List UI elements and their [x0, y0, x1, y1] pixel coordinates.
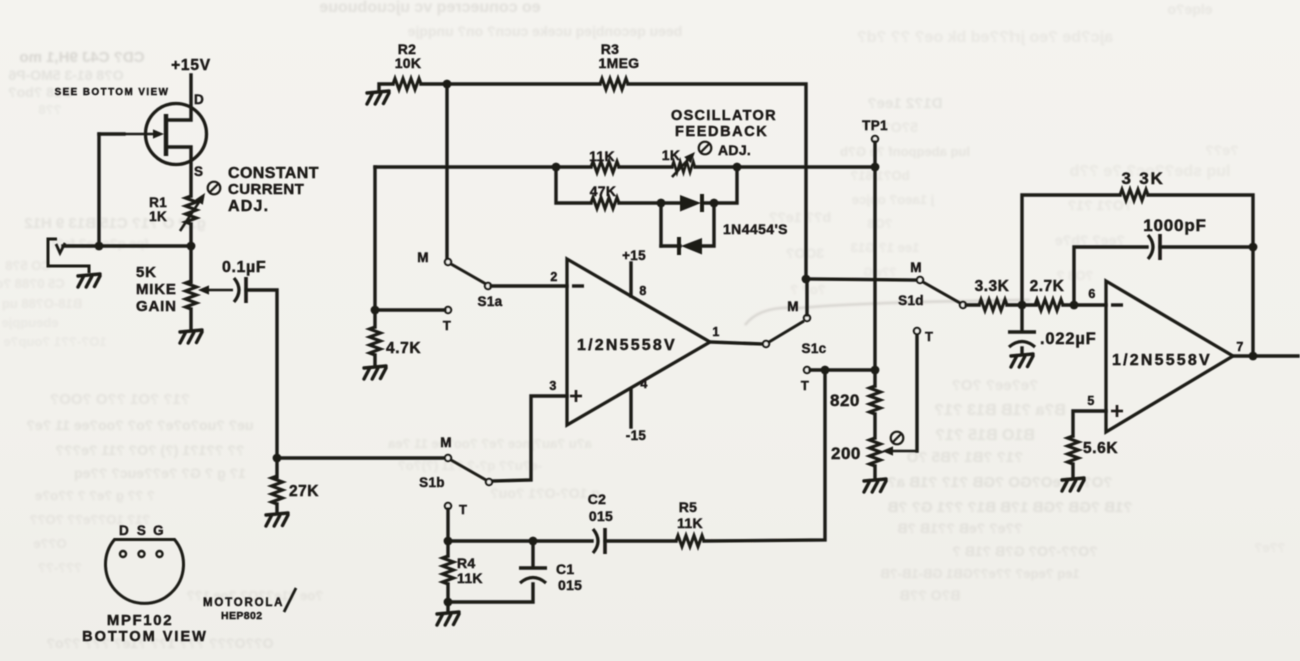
wire to D1 [661, 201, 680, 204]
wire pin 8 +15 [629, 263, 632, 296]
junction output node [802, 275, 811, 284]
resistor 2.7K [1035, 300, 1063, 311]
minus input mark U1b [1111, 303, 1123, 306]
wire to R4 [446, 541, 449, 556]
ground R2 [367, 91, 389, 104]
svg-text:S1c: S1c [802, 341, 827, 356]
svg-text:S: S [194, 164, 203, 179]
wire 1000pF left [1074, 247, 1147, 305]
svg-text:O??e: O??e [33, 536, 66, 551]
wire 5.6K to ground [1071, 464, 1074, 478]
wire node to S1a M [445, 84, 448, 259]
svg-text:?O?1 ?1?: ?O?1 ?1? [1068, 197, 1133, 213]
svg-text:?e??: ?e?? [1205, 142, 1238, 158]
resistor 5K MIKE GAIN potentiometer [186, 281, 197, 309]
wire output pin 1 [710, 342, 763, 344]
svg-text:?1? 1O??e?? ?O??: ?1? 1O??e?? ?O?? [30, 512, 151, 527]
ground R4 [437, 612, 459, 625]
wire R1 to node [189, 224, 192, 246]
svg-text:10K: 10K [395, 55, 422, 71]
wire 3.3K to 2.7K [1007, 303, 1036, 306]
phase symbol R1 [208, 182, 221, 195]
wire S1b T down [446, 509, 449, 541]
svg-text:MIKE: MIKE [136, 281, 177, 298]
switch S1a blade [451, 264, 486, 284]
svg-text:MPF102: MPF102 [107, 612, 173, 629]
wire +15V to Q1 drain [166, 75, 191, 120]
wire 11K to 1K pot [619, 165, 672, 168]
svg-text:+15: +15 [622, 248, 646, 263]
diode D2 1N4454 [679, 237, 702, 255]
svg-text:1eq ?eqe? ??e??GB1 GB-1B-?B: 1eq ?eqe? ??e??GB1 GB-1B-?B [880, 566, 1079, 581]
svg-text:1ee 1? G13: 1ee 1? G13 [851, 240, 920, 255]
wire 27K to ground [275, 504, 278, 513]
wire 0.1uF to S1b feed [246, 290, 277, 458]
svg-text:0.1µF: 0.1µF [222, 259, 266, 276]
wire feedback line left [375, 165, 591, 168]
svg-text:?O??-?O? G?B ?1B ?: ?O??-?O? G?B ?1B ? [952, 543, 1097, 559]
svg-text:C5 0?88 ?o: C5 0?88 ?o [0, 276, 65, 291]
wire to 47K [556, 167, 591, 203]
phase symbol 1K [699, 142, 712, 155]
wire output node to S1d M [806, 279, 916, 280]
resistor 27K [272, 476, 283, 504]
wire C1 to ground rail [448, 584, 533, 602]
wire 200 to ground [873, 466, 876, 479]
wire wiper to S1d T [915, 334, 918, 451]
svg-text:S1d: S1d [898, 293, 924, 308]
svg-text:R4: R4 [457, 555, 476, 571]
svg-text:1: 1 [712, 325, 719, 339]
wire diode loop left [659, 203, 662, 246]
svg-text:820: 820 [830, 391, 860, 410]
wire node to S1b M [277, 456, 444, 459]
svg-text:-15: -15 [626, 428, 647, 443]
switch S1c blade [769, 321, 804, 342]
svg-text:?e?ee? ?O?: ?e?ee? ?O? [952, 377, 1039, 394]
potentiometer 200 [870, 438, 881, 466]
svg-text:1O?-??1 ?oup?e: 1O?-??1 ?oup?e [3, 334, 106, 349]
wire input node [63, 244, 191, 247]
wire pin 3 to S1b pole [492, 396, 567, 481]
svg-text:CO 5?8: CO 5?8 [5, 258, 51, 273]
svg-text:S1a: S1a [478, 294, 503, 309]
svg-text:B18-O?88 uq: B18-O?88 uq [2, 296, 82, 311]
wire output pin 7 [1233, 354, 1298, 357]
1K pot wiper arrow [672, 152, 695, 177]
ground 27K [266, 513, 288, 526]
wire to C1 [531, 541, 534, 567]
svg-text:1N4454'S: 1N4454'S [723, 221, 788, 237]
contact S1c pole [763, 341, 769, 347]
resistor 4.7K [370, 327, 381, 355]
wire to 820 [873, 370, 876, 386]
svg-text:3: 3 [549, 379, 556, 393]
svg-text:200: 200 [831, 444, 861, 463]
svg-text:1000pF: 1000pF [1143, 216, 1206, 235]
svg-text:B?a ?1B B13 ?1?: B?a ?1B B13 ?1? [934, 402, 1066, 419]
contact S1b M [445, 455, 451, 461]
wire S1d pole to 3.3K [966, 303, 979, 306]
junction diode left [657, 199, 666, 208]
svg-text:1? g ? G? ?e??euc? ??eq: 1? g ? G? ?e??euc? ??eq [74, 465, 246, 481]
capacitor 1000pF [1148, 234, 1160, 260]
capacitor C2 .015 [593, 528, 605, 554]
wire pin 5 [1073, 411, 1106, 436]
svg-text:27K: 27K [289, 483, 319, 500]
svg-text:bO?1 61?: bO?1 61? [850, 168, 909, 183]
Q1 gate arrow [121, 129, 164, 138]
wire TP1 line down [873, 167, 876, 370]
op-amp U1a 1/2N5558V [567, 259, 710, 425]
wire 1K to TP1 node [695, 165, 875, 168]
svg-text:T: T [925, 329, 933, 344]
ground 5K pot [180, 330, 202, 343]
svg-text:015: 015 [558, 577, 582, 593]
svg-text:g 1O?-O?1 ?ou?: g 1O?-O?1 ?ou? [490, 485, 600, 501]
capacitor C1 .015 [519, 568, 547, 583]
capacitor .022uF [1008, 332, 1036, 347]
junction diode right [710, 199, 719, 208]
wire 33K left [1022, 195, 1120, 305]
svg-text:j 1aeo? opjce: j 1aeo? opjce [852, 192, 935, 207]
wire to .022uF [1020, 305, 1023, 331]
svg-text:.022µF: .022µF [1040, 330, 1097, 348]
resistor R2 10K [393, 79, 421, 90]
svg-text:5.6K: 5.6K [1083, 440, 1118, 457]
resistor 5.6K [1068, 436, 1079, 464]
wire S1c M up [805, 279, 808, 315]
wire .022uF to ground [1020, 348, 1023, 354]
svg-text:T: T [459, 502, 467, 517]
transistor Q1 MPF102 body [146, 104, 207, 165]
svg-text:elqe?o: elqe?o [1167, 1, 1212, 17]
junction 4.7K [371, 306, 380, 315]
pin dot S [139, 551, 145, 557]
ground jack sleeve [78, 274, 100, 287]
svg-text:?1B ?GB ?GB 1?B B1? ??1 G? ?B: ?1B ?GB ?GB 1?B B1? ??1 G? ?B [887, 499, 1132, 516]
wire 4.7K node to S1a T [375, 308, 445, 311]
svg-text:HEP802: HEP802 [221, 610, 263, 622]
svg-text:T: T [443, 318, 451, 333]
svg-text:R5: R5 [679, 499, 698, 515]
resistor 47K [591, 198, 619, 209]
wire TP1 stub [873, 142, 876, 167]
contact S1b pole [486, 479, 492, 485]
pencil smudge [745, 300, 1030, 325]
wire to C2 [448, 539, 592, 542]
contact S1b T [445, 503, 451, 509]
wire 47K to diodes [619, 201, 661, 204]
pin dot D [120, 551, 126, 557]
ground 200 pot [864, 479, 886, 492]
junction pin6 node [1070, 301, 1079, 310]
junction T drop [821, 366, 830, 375]
svg-text:??e?: ??e? [1254, 540, 1285, 555]
capacitor 0.1uF [234, 277, 246, 303]
wire to D2 [661, 244, 680, 247]
svg-text:ADJ.: ADJ. [718, 142, 751, 158]
diode D1 1N4454 [680, 194, 702, 212]
svg-text:g1P O ?1? C15 B13 9 H12: g1P O ?1? C15 B13 9 H12 [24, 215, 205, 232]
svg-text:1K: 1K [662, 147, 681, 163]
svg-text:3 3K: 3 3K [1121, 169, 1164, 188]
wire diode loop right [702, 203, 714, 246]
potentiometer 1K oscillator feedback [672, 162, 695, 173]
svg-text:7: 7 [1236, 340, 1243, 354]
svg-text:2.7K: 2.7K [1030, 278, 1065, 295]
junction gate-input node [95, 242, 104, 251]
wire S1c T to 820 [810, 368, 875, 371]
svg-text:11K: 11K [589, 148, 615, 164]
wire D1 to 1K node [702, 167, 737, 203]
wire R3 to output switch node [628, 84, 806, 279]
switch S1d blade [923, 282, 960, 303]
svg-text:CONSTANT: CONSTANT [228, 165, 319, 182]
wire to 4.7K node [373, 167, 376, 310]
junction 3.3K-2.7K [1018, 301, 1027, 310]
ground .022uF [1011, 354, 1033, 367]
ground 4.7K [364, 366, 386, 379]
wire 33K right to output [1148, 195, 1253, 356]
svg-text:1/2N5558V: 1/2N5558V [577, 337, 677, 354]
contact S1d M [917, 277, 923, 283]
resistor R3 1MEG [600, 79, 628, 90]
wire 2.7K to pin 6 [1063, 303, 1106, 306]
svg-text:2: 2 [550, 270, 557, 284]
contact S1c M [804, 315, 810, 321]
svg-text:luq abeqponf ?e G?b: luq abeqponf ?e G?b [840, 144, 970, 159]
svg-text:OSCILLATOR: OSCILLATOR [671, 108, 777, 124]
junction output pin 7 [1249, 352, 1258, 361]
resistor R4 11K [443, 556, 454, 584]
plus input mark [570, 390, 582, 402]
svg-text:ajc?be ?eo jrf??ed bk oe? ?? ?: ajc?be ?eo jrf??ed bk oe? ?? ?d? [857, 29, 1113, 46]
svg-text:4: 4 [640, 377, 647, 391]
contact S1c T [804, 367, 810, 373]
svg-text:ADJ.: ADJ. [228, 198, 269, 215]
wire 1000pF right [1160, 245, 1253, 248]
wire gate to input node [97, 134, 100, 246]
junction R4 bottom [444, 598, 453, 607]
resistor R5 11K [676, 536, 704, 547]
wire 820 to 200 pot [873, 414, 876, 438]
op-amp U1b 1/2N5558V [1106, 281, 1233, 432]
svg-text:D1?2 1ee?: D1?2 1ee? [867, 95, 942, 112]
junction TP1 [871, 163, 880, 172]
svg-text:beeu qeconbjeq uceke cucn? on?: beeu qeconbjeq uceke cucn? on? unqqje [407, 23, 682, 39]
svg-text:3.3K: 3.3K [975, 278, 1010, 295]
Q1 channel bar [164, 114, 168, 156]
svg-text:CURRENT: CURRENT [228, 181, 304, 198]
wire R2 to R3 [421, 82, 600, 85]
svg-text:M: M [440, 435, 452, 450]
wire pin 4 -15 [629, 390, 632, 427]
svg-text:B1O B15 ?1?: B1O B15 ?1? [935, 427, 1035, 444]
svg-text:8: 8 [639, 284, 646, 298]
wire gate stub [99, 132, 124, 135]
svg-text:MOTOROLA: MOTOROLA [203, 597, 284, 609]
svg-text:M: M [910, 260, 922, 275]
svg-text:1MEG: 1MEG [599, 55, 640, 71]
svg-text:D: D [119, 523, 129, 538]
junction 820 top [871, 366, 880, 375]
svg-text:R1: R1 [149, 195, 167, 210]
svg-text:6: 6 [1088, 287, 1095, 301]
resistor R1 1K potentiometer [186, 196, 197, 224]
wire to 4.7K [373, 310, 376, 327]
junction C1 top [529, 537, 538, 546]
svg-text:1/2N5558V: 1/2N5558V [1112, 352, 1212, 369]
svg-text:+15V: +15V [171, 57, 211, 74]
junction R4 top [444, 537, 453, 546]
svg-text:SEE BOTTOM VIEW: SEE BOTTOM VIEW [55, 87, 170, 98]
resistor 3.3K [979, 300, 1007, 311]
wire C2 to R5 [605, 539, 676, 542]
svg-text:GAIN: GAIN [136, 298, 177, 315]
junction R2-R3 node [443, 80, 452, 89]
svg-text:C2: C2 [588, 491, 607, 507]
phase symbol 200 [891, 432, 904, 445]
resistor 11K [591, 162, 619, 173]
junction 1000pF output [1249, 243, 1258, 252]
svg-text:??e? ?eB ??1B ?B: ??e? ?eB ??1B ?B [897, 520, 1022, 536]
svg-text:M: M [787, 299, 799, 314]
svg-text:5K: 5K [136, 264, 157, 281]
svg-text:47K: 47K [590, 183, 617, 199]
R1 wiper arrow [180, 193, 205, 231]
MPF102 package bottom view [105, 540, 183, 604]
svg-text:CD? C4J 9H,1 mo: CD? C4J 9H,1 mo [19, 49, 144, 66]
svg-text:???-??: ???-?? [38, 560, 82, 575]
svg-text:??wG: ??wG [863, 265, 896, 279]
svg-text:S: S [137, 523, 146, 538]
svg-text:T: T [801, 378, 809, 393]
svg-text:G: G [153, 523, 164, 538]
switch S1b blade [451, 460, 486, 480]
plus input mark U1b [1111, 405, 1123, 417]
svg-text:??8: ??8 [38, 102, 61, 117]
ground 5.6K [1062, 478, 1084, 491]
test point TP1 terminal [872, 136, 878, 142]
contact S1a T [445, 307, 451, 313]
junction 11K-47K [552, 163, 561, 172]
resistor 820 [870, 386, 881, 414]
svg-text:1K: 1K [149, 209, 167, 224]
wire Q1 source lead [166, 147, 191, 196]
wire S1a pole to pin 2 [491, 284, 567, 287]
svg-text:?1? ?O1 ??O ?OO?: ?1? ?O1 ??O ?OO? [50, 391, 190, 408]
svg-text:TP1: TP1 [862, 118, 888, 133]
pin dot G [157, 551, 163, 557]
svg-text:B?O ??B: B?O ??B [900, 587, 961, 603]
svg-text:S1b: S1b [419, 475, 445, 490]
svg-text:a?u ?au?jnce ?e? ?oo?ee 11 ?ea: a?u ?au?jnce ?e? ?oo?ee 11 ?ea [387, 436, 591, 451]
svg-text:ue? ?uo?o?e? ?o? ?oo?ee 11 ?e?: ue? ?uo?o?e? ?o? ?oo?ee 11 ?e? [26, 417, 253, 433]
svg-text:?O8: ?O8 [867, 216, 892, 231]
wire node to 5K pot [189, 246, 192, 282]
svg-text:D: D [194, 92, 204, 107]
wire 4.7K to ground [373, 355, 376, 366]
contact S1d T [914, 328, 920, 334]
5K pot wiper arrow [198, 285, 233, 294]
junction 1K-diodes [733, 163, 742, 172]
wire 5K pot to ground [189, 309, 192, 330]
contact S1a M [445, 259, 451, 265]
svg-text:C1: C1 [556, 561, 575, 577]
svg-text:FEEDBACK: FEEDBACK [675, 124, 768, 140]
svg-text:11K: 11K [457, 570, 483, 586]
minus input mark [572, 284, 584, 287]
svg-text:eo conuecreq vc ujcuobuoue: eo conuecreq vc ujcuobuoue [319, 0, 540, 16]
svg-text:4.7K: 4.7K [386, 340, 421, 357]
svg-text:O?8 61-3 5MO-P6: O?8 61-3 5MO-P6 [8, 67, 123, 83]
contact S1d pole [960, 302, 966, 308]
svg-text:BOTTOM VIEW: BOTTOM VIEW [82, 629, 208, 645]
wire R2 to ground [379, 84, 393, 91]
svg-text:?? ??1?1 (?) ?O? ?11 ?e???: ?? ??1?1 (?) ?O? ?11 ?e??? [56, 442, 245, 458]
resistor 33K [1120, 190, 1148, 201]
wire to 27K [275, 458, 278, 477]
junction source-divider node [187, 242, 196, 251]
svg-text:? ?? g ?e? ? ??o?e: ? ?? g ?e? ? ??o?e [35, 488, 155, 503]
svg-text:015: 015 [589, 508, 613, 524]
svg-text:11K: 11K [677, 515, 703, 531]
svg-text:?1? ?B1 ?B5 ?O: ?1? ?B1 ?B5 ?O [906, 449, 1023, 466]
contact S1a pole [485, 283, 491, 289]
slash [284, 588, 296, 612]
wire R4 to ground [446, 584, 449, 612]
junction 27K node [273, 454, 282, 463]
wire R5 to S1c T node [704, 370, 825, 541]
microphone input jack J1 [48, 239, 89, 273]
svg-text:ebeuqpje: ebeuqpje [1, 315, 58, 330]
200 pot wiper arrow [882, 446, 917, 455]
svg-text:5: 5 [1087, 394, 1094, 408]
svg-text:M: M [417, 250, 429, 265]
